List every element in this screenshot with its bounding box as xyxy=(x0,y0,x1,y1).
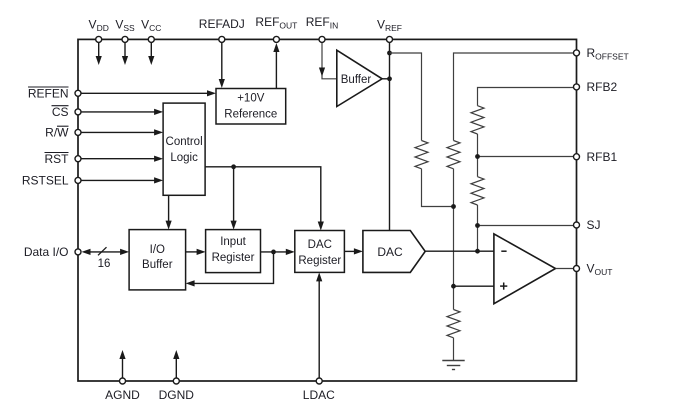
wire AGND arrow xyxy=(119,350,125,378)
wire R3 to ground xyxy=(453,338,455,360)
block +10V Reference U2 xyxy=(216,89,286,125)
junction R1/R2 node SUM xyxy=(451,204,456,209)
pin REFADJ xyxy=(219,36,225,42)
wire RSTSEL to Control Logic xyxy=(81,177,163,183)
bus width slash 16 xyxy=(98,247,111,270)
op-amp U1 xyxy=(494,234,556,304)
svg-text:Register: Register xyxy=(298,255,341,267)
svg-text:Buffer: Buffer xyxy=(142,259,173,271)
label RW xyxy=(45,126,69,140)
wire R1 bottom to node SUM xyxy=(422,169,454,207)
svg-text:VSS: VSS xyxy=(115,18,135,34)
block I/O Buffer xyxy=(129,230,186,290)
svg-text:Control: Control xyxy=(166,136,203,148)
block Control Logic xyxy=(163,103,205,195)
svg-text:RST: RST xyxy=(45,152,70,166)
svg-text:LDAC: LDAC xyxy=(303,388,335,402)
pin VCC xyxy=(148,36,154,42)
pin DGND xyxy=(173,378,179,384)
junction control bus split xyxy=(231,164,236,169)
svg-text:Buffer: Buffer xyxy=(341,74,372,86)
wire SJ branch xyxy=(478,225,577,227)
resistor R3 xyxy=(447,310,460,338)
svg-text:REFIN: REFIN xyxy=(306,15,339,31)
label REFEN xyxy=(28,86,69,100)
wire DAC output to op-amp inverting input xyxy=(425,250,494,252)
pin ROFFSET xyxy=(574,50,580,56)
wire buffer output to VREF net xyxy=(382,78,389,80)
svg-text:16: 16 xyxy=(98,258,111,270)
wire VSS supply arrow xyxy=(122,41,128,65)
wire CS to Control Logic xyxy=(81,109,163,115)
wire Data I/O bus xyxy=(82,249,130,255)
svg-text:REFEN: REFEN xyxy=(28,86,69,100)
svg-text:REFOUT: REFOUT xyxy=(255,15,297,31)
pin REFEN xyxy=(75,90,81,96)
wire VREF branch to R1 xyxy=(390,53,422,141)
wire RST to Control Logic xyxy=(81,156,163,162)
svg-text:REFADJ: REFADJ xyxy=(199,17,245,31)
svg-text:R/W: R/W xyxy=(45,126,69,140)
wire Control Logic to Input Register xyxy=(205,167,237,230)
svg-text:Data I/O: Data I/O xyxy=(24,245,69,259)
wire R4 bottom to R5 top xyxy=(477,134,479,177)
svg-text:RSTSEL: RSTSEL xyxy=(22,174,69,188)
svg-text:RFB1: RFB1 xyxy=(587,150,618,164)
svg-text:VCC: VCC xyxy=(141,18,161,34)
ground xyxy=(442,361,464,370)
svg-text:VDD: VDD xyxy=(89,18,109,34)
label CS xyxy=(52,105,69,119)
junction RFB1 node xyxy=(475,154,480,159)
pin REFOUT xyxy=(273,36,279,42)
junction node SUM / op-amp + input xyxy=(451,284,456,289)
wire Control Logic to DAC Register xyxy=(234,167,324,231)
svg-text:VREF: VREF xyxy=(377,18,402,34)
svg-text:Input: Input xyxy=(220,236,246,248)
pin SJ xyxy=(574,222,580,228)
svg-text:AGND: AGND xyxy=(105,388,140,402)
wire op-amp output to VOUT xyxy=(556,268,577,270)
svg-text:ROFFSET: ROFFSET xyxy=(587,46,629,62)
pin CS xyxy=(75,109,81,115)
block Input Register xyxy=(206,230,261,273)
pin VOUT xyxy=(574,266,580,272)
wire VREF vertical to DAC xyxy=(389,41,391,231)
svg-text:Reference: Reference xyxy=(224,109,277,121)
svg-text:I/O: I/O xyxy=(150,244,165,256)
block DAC Register xyxy=(295,231,345,273)
wire LDAC to DAC Register xyxy=(316,272,322,378)
svg-text:DAC: DAC xyxy=(308,239,332,251)
wire node SUM vertical down xyxy=(453,169,455,310)
svg-text:Logic: Logic xyxy=(170,152,198,164)
wire RFB1 branch xyxy=(478,156,577,158)
wire DAC Register to DAC xyxy=(344,248,363,254)
wire readback to I/O Buffer xyxy=(186,252,274,287)
pin VDD xyxy=(96,36,102,42)
svg-text:CS: CS xyxy=(52,105,69,119)
resistor R2 xyxy=(447,141,460,169)
svg-text:+10V: +10V xyxy=(237,93,265,105)
wire I/O Buffer to Input Register xyxy=(186,249,206,255)
wire Input Register to DAC Register xyxy=(261,249,295,255)
wire REFEN to +10V Reference xyxy=(81,90,216,96)
wire op-amp noninverting input to node SUM xyxy=(454,285,494,287)
pin RW xyxy=(75,129,81,135)
svg-text:DGND: DGND xyxy=(159,388,195,402)
wire REFADJ to +10V Reference xyxy=(219,41,225,88)
pin VSS xyxy=(122,36,128,42)
buffer amplifier U3 xyxy=(337,50,382,106)
wire DGND arrow xyxy=(173,350,179,378)
wire R/W to Control Logic xyxy=(81,129,163,135)
wire RFB2 branch to R4 xyxy=(478,88,577,106)
pin RSTSEL xyxy=(75,177,81,183)
pin RST xyxy=(75,156,81,162)
junction inverting input node xyxy=(475,249,480,254)
pin AGND xyxy=(120,378,126,384)
DAC converter U4 xyxy=(363,231,425,273)
wire Control Logic to I/O Buffer xyxy=(166,195,172,229)
svg-text:SJ: SJ xyxy=(587,218,601,232)
wire REFIN to Buffer input xyxy=(319,41,337,79)
junction readback node xyxy=(271,250,276,255)
pin REFIN xyxy=(319,36,325,42)
pin RFB1 xyxy=(574,154,580,160)
wire VCC supply arrow xyxy=(148,41,154,65)
resistor R4 xyxy=(471,106,484,134)
junction VREF/ROFFSET xyxy=(387,51,392,56)
pin Data I/O xyxy=(75,249,81,255)
svg-text:VOUT: VOUT xyxy=(587,262,613,278)
resistor R1 xyxy=(415,141,428,169)
label RST xyxy=(45,152,70,166)
junction VREF/buffer out xyxy=(387,76,392,81)
pin LDAC xyxy=(316,378,322,384)
wire ROFFSET branch to R2 xyxy=(454,53,577,141)
pin RFB2 xyxy=(574,84,580,90)
wire R5 bottom to op-amp inverting node xyxy=(477,205,479,251)
svg-text:Register: Register xyxy=(212,252,255,264)
svg-text:DAC: DAC xyxy=(377,245,403,259)
pin VREF xyxy=(387,36,393,42)
resistor R5 xyxy=(471,177,484,205)
chip boundary border xyxy=(78,39,577,381)
wire REFOUT from +10V Reference xyxy=(273,43,279,89)
svg-text:RFB2: RFB2 xyxy=(587,80,618,94)
wire VDD supply arrow xyxy=(96,41,102,65)
junction SJ node xyxy=(475,223,480,228)
